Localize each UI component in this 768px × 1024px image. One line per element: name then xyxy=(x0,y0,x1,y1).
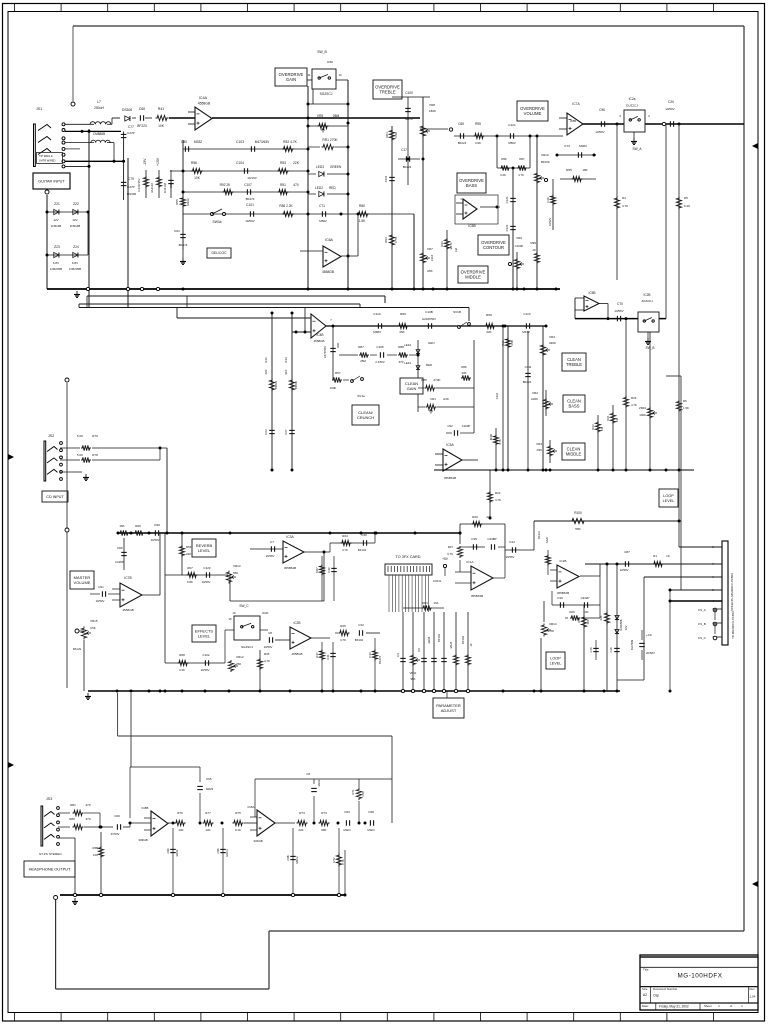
svg-text:10K: 10K xyxy=(178,828,183,832)
svg-text:16: 16 xyxy=(232,611,236,615)
svg-text:C87: C87 xyxy=(624,550,630,554)
svg-text:SW_B: SW_B xyxy=(317,50,327,54)
svg-text:M1C3: M1C3 xyxy=(225,849,229,857)
svg-text:C104: C104 xyxy=(236,161,244,165)
svg-text:10/50V: 10/50V xyxy=(96,599,105,603)
svg-text:VR04: VR04 xyxy=(639,406,647,410)
svg-text:10/50V: 10/50V xyxy=(202,580,211,584)
svg-text:RF331: RF331 xyxy=(537,530,541,539)
svg-text:1K: 1K xyxy=(532,248,536,252)
svg-text:R81: R81 xyxy=(70,803,76,807)
svg-text:C122: C122 xyxy=(505,224,509,231)
svg-text:Size: Size xyxy=(642,987,648,991)
svg-text:ADJUST: ADJUST xyxy=(441,708,457,713)
svg-text:470: 470 xyxy=(85,803,90,807)
svg-text:10/50V: 10/50V xyxy=(595,130,604,134)
svg-text:R80: R80 xyxy=(69,817,75,821)
svg-text:R52 4.7K: R52 4.7K xyxy=(283,140,298,144)
svg-text:10/50V: 10/50V xyxy=(264,645,273,649)
svg-text:C110: C110 xyxy=(373,312,380,316)
svg-text:R4: R4 xyxy=(622,196,626,200)
svg-text:M124: M124 xyxy=(449,641,453,648)
svg-text:BF224: BF224 xyxy=(274,380,278,389)
svg-text:10K: 10K xyxy=(205,828,210,832)
svg-text:10/50V: 10/50V xyxy=(665,107,674,111)
svg-text:Z24: Z24 xyxy=(73,245,79,249)
svg-text:R26: R26 xyxy=(472,515,478,519)
svg-text:OVERDRIVE: OVERDRIVE xyxy=(461,269,486,274)
svg-text:12V: 12V xyxy=(624,625,628,630)
svg-text:BF104: BF104 xyxy=(355,638,364,642)
svg-text:M502: M502 xyxy=(319,219,327,223)
svg-text:C44: C44 xyxy=(509,540,515,544)
svg-text:R59: R59 xyxy=(486,313,492,317)
svg-text:R99: R99 xyxy=(530,241,536,245)
svg-text:TO 3FX CARD: TO 3FX CARD xyxy=(395,555,420,559)
svg-text:R66: R66 xyxy=(461,365,467,369)
svg-text:CON1: CON1 xyxy=(433,579,442,583)
svg-text:LOOP: LOOP xyxy=(663,494,674,498)
svg-text:CD INPUT: CD INPUT xyxy=(46,495,64,499)
svg-text:4.7K: 4.7K xyxy=(518,173,524,177)
svg-text:C7: C7 xyxy=(270,540,274,544)
svg-text:M223: M223 xyxy=(206,787,214,791)
svg-text:R66: R66 xyxy=(135,524,141,528)
svg-text:GRN: GRN xyxy=(428,341,434,345)
svg-text:C100: C100 xyxy=(405,91,413,95)
svg-text:CONTOUR: CONTOUR xyxy=(483,245,504,250)
svg-text:C94: C94 xyxy=(166,848,170,853)
svg-text:4558GB: 4558GB xyxy=(313,339,324,343)
svg-text:SG2SCJ: SG2SCJ xyxy=(241,645,253,649)
svg-text:CLEAN: CLEAN xyxy=(567,357,581,362)
svg-text:FS_A: FS_A xyxy=(698,608,706,612)
svg-text:BF103: BF103 xyxy=(437,634,441,642)
svg-text:L7: L7 xyxy=(97,100,101,104)
svg-text:13: 13 xyxy=(338,73,342,77)
svg-text:455B61B: 455B61B xyxy=(444,476,456,480)
svg-text:BF103: BF103 xyxy=(461,636,465,644)
svg-text:TO MG30CFX-PCB03: TO MG30CFX-PCB03 xyxy=(731,611,735,639)
svg-text:55K: 55K xyxy=(575,527,581,531)
svg-text:BF224: BF224 xyxy=(523,380,532,384)
svg-text:Document Number: Document Number xyxy=(653,987,677,991)
svg-text:GAIN: GAIN xyxy=(286,77,296,82)
svg-text:+15V: +15V xyxy=(156,157,160,166)
svg-text:DEL/COC: DEL/COC xyxy=(211,251,227,255)
svg-text:08M: 08M xyxy=(333,114,340,118)
svg-text:455B61B: 455B61B xyxy=(284,566,296,570)
svg-text:ST-PC STEREO: ST-PC STEREO xyxy=(39,852,62,856)
svg-text:VR15: VR15 xyxy=(90,619,98,623)
svg-text:470: 470 xyxy=(293,183,299,187)
svg-text:C40: C40 xyxy=(327,567,331,573)
svg-text:R87: R87 xyxy=(358,345,364,349)
svg-text:C105: C105 xyxy=(376,345,384,349)
svg-text:C41: C41 xyxy=(326,654,330,660)
svg-text:VR4: VR4 xyxy=(549,335,555,339)
svg-text:M024: M024 xyxy=(344,828,351,832)
svg-text:A5K: A5K xyxy=(537,448,543,452)
svg-text:C5K: C5K xyxy=(90,626,96,630)
svg-text:MG-100HDFX: MG-100HDFX xyxy=(678,973,723,980)
svg-text:C43P/35V: C43P/35V xyxy=(137,178,141,191)
svg-text:BF224: BF224 xyxy=(403,165,412,169)
svg-text:22K: 22K xyxy=(486,515,491,519)
svg-text:R78: R78 xyxy=(92,453,98,457)
svg-text:IC8A: IC8A xyxy=(248,805,256,809)
svg-text:C32: C32 xyxy=(358,623,364,627)
svg-text:R5: R5 xyxy=(684,196,688,200)
svg-text:250uH: 250uH xyxy=(94,106,104,110)
svg-text:IC8B: IC8B xyxy=(142,806,149,810)
svg-text:RR1 270K: RR1 270K xyxy=(322,138,338,142)
svg-text:C79: C79 xyxy=(128,177,134,181)
svg-text:95K: 95K xyxy=(411,677,416,681)
svg-text:6.8K: 6.8K xyxy=(187,580,193,584)
svg-text:R23: R23 xyxy=(495,491,501,495)
svg-text:JS2: JS2 xyxy=(48,434,54,438)
svg-text:R85: R85 xyxy=(421,378,427,382)
svg-text:C16: C16 xyxy=(609,647,613,652)
svg-text:R24: R24 xyxy=(342,534,348,538)
svg-text:4.7K: 4.7K xyxy=(495,498,501,502)
svg-text:R58 2.2K: R58 2.2K xyxy=(279,204,293,208)
svg-text:5.6K: 5.6K xyxy=(77,434,83,438)
svg-text:C332P: C332P xyxy=(581,596,590,600)
svg-text:R65: R65 xyxy=(566,168,572,172)
svg-text:BASS: BASS xyxy=(466,183,477,188)
svg-text:SPK&CPL-MG30DFX-PCB01: SPK&CPL-MG30DFX-PCB01 xyxy=(730,573,734,611)
svg-text:PAGN: PAGN xyxy=(73,647,82,651)
svg-text:9.1K: 9.1K xyxy=(235,828,241,832)
svg-text:G220P/56V: G220P/56V xyxy=(422,317,436,321)
svg-text:R63: R63 xyxy=(591,424,595,430)
svg-text:R1: R1 xyxy=(653,554,657,558)
svg-text:VR11: VR11 xyxy=(409,671,416,675)
svg-text:10K: 10K xyxy=(194,176,201,180)
svg-text:1N914B: 1N914B xyxy=(51,224,62,228)
svg-text:M222: M222 xyxy=(186,198,190,206)
svg-text:1N5235B: 1N5235B xyxy=(69,267,81,271)
svg-text:IC4A: IC4A xyxy=(199,96,208,100)
svg-text:10K: 10K xyxy=(158,124,165,128)
svg-text:RED: RED xyxy=(426,363,432,367)
svg-text:R71: R71 xyxy=(351,789,355,794)
svg-text:6.8V: 6.8V xyxy=(72,261,78,265)
svg-text:M182: M182 xyxy=(175,849,179,856)
svg-text:10/56V: 10/56V xyxy=(266,554,275,558)
svg-text:15: 15 xyxy=(228,617,232,621)
svg-text:10/16V: 10/16V xyxy=(247,176,257,180)
svg-text:M222: M222 xyxy=(317,779,321,786)
svg-text:Z23: Z23 xyxy=(54,245,60,249)
svg-text:C30: C30 xyxy=(361,533,367,537)
svg-text:455B61B: 455B61B xyxy=(557,591,569,595)
svg-text:R6B: R6B xyxy=(93,846,99,850)
svg-text:BF474: BF474 xyxy=(246,197,255,201)
svg-text:GREEN: GREEN xyxy=(330,165,342,169)
svg-text:DUZ2CJ: DUZ2CJ xyxy=(626,104,638,108)
svg-text:6.2K: 6.2K xyxy=(684,204,690,208)
svg-text:Z21: Z21 xyxy=(54,202,60,206)
svg-text:VR10: VR10 xyxy=(541,153,549,157)
svg-text:FS_B: FS_B xyxy=(698,622,706,626)
svg-text:10/56V: 10/56V xyxy=(620,568,629,572)
svg-text:C47P/35V: C47P/35V xyxy=(323,346,327,358)
svg-text:C43: C43 xyxy=(368,652,372,658)
svg-text:DR1: DR1 xyxy=(336,342,340,348)
svg-text:1N5235B: 1N5235B xyxy=(50,267,62,271)
svg-text:R44: R44 xyxy=(284,357,288,363)
svg-text:BF474: BF474 xyxy=(179,243,188,247)
svg-text:LEVEL: LEVEL xyxy=(198,548,211,553)
svg-text:SV1B: SV1B xyxy=(453,310,461,314)
svg-text:320K: 320K xyxy=(549,341,556,345)
svg-text:3.2K: 3.2K xyxy=(500,173,506,177)
svg-text:OVERDRIVE: OVERDRIVE xyxy=(481,240,506,245)
svg-text:R37: R37 xyxy=(315,652,319,658)
svg-text:R43: R43 xyxy=(264,357,268,363)
svg-text:C96: C96 xyxy=(599,108,605,112)
svg-text:M022: M022 xyxy=(579,144,587,148)
svg-text:M473: M473 xyxy=(449,242,453,249)
svg-text:C71: C71 xyxy=(319,204,325,208)
svg-text:100K: 100K xyxy=(330,386,337,390)
svg-text:IC8c: IC8c xyxy=(327,60,334,64)
svg-text:A20K: A20K xyxy=(531,397,538,401)
svg-text:C67: C67 xyxy=(284,429,288,435)
svg-text:GAIN: GAIN xyxy=(407,386,417,391)
svg-text:RZ4558B: RZ4558B xyxy=(619,619,623,630)
svg-text:C107: C107 xyxy=(244,183,252,187)
svg-text:IC2B: IC2B xyxy=(643,293,650,297)
svg-text:R64: R64 xyxy=(422,601,428,605)
svg-text:22K: 22K xyxy=(486,330,491,334)
svg-text:OVERDRIVE: OVERDRIVE xyxy=(375,84,400,89)
svg-text:C101: C101 xyxy=(246,203,254,207)
svg-text:1K: 1K xyxy=(666,554,670,558)
svg-text:1.6K: 1.6K xyxy=(546,197,550,203)
svg-text:R96: R96 xyxy=(501,157,507,161)
svg-text:C17: C17 xyxy=(401,148,407,152)
svg-text:R6: R6 xyxy=(683,399,687,403)
svg-text:OVERDRIVE: OVERDRIVE xyxy=(520,106,545,111)
svg-text:M332: M332 xyxy=(194,140,202,144)
svg-text:68K: 68K xyxy=(321,828,326,832)
svg-text:SG2SCJ: SG2SCJ xyxy=(320,92,333,96)
svg-text:TREBLE: TREBLE xyxy=(379,90,395,95)
svg-text:100K: 100K xyxy=(639,413,646,417)
svg-text:4558GB: 4558GB xyxy=(198,102,211,106)
svg-text:R61: R61 xyxy=(606,415,610,421)
svg-text:+5V: +5V xyxy=(442,557,449,561)
svg-text:VR3: VR3 xyxy=(536,442,542,446)
svg-text:4.7K: 4.7K xyxy=(340,638,346,642)
svg-text:LED2: LED2 xyxy=(315,186,323,190)
svg-text:A3K: A3K xyxy=(443,397,449,401)
svg-text:C96: C96 xyxy=(216,848,220,853)
svg-text:M472: M472 xyxy=(405,117,413,121)
svg-text:4558GB: 4558GB xyxy=(291,652,302,656)
svg-text:FS_C: FS_C xyxy=(698,636,707,640)
svg-text:TREBLE: TREBLE xyxy=(566,362,582,367)
svg-text:M024: M024 xyxy=(368,828,375,832)
svg-text:C80: C80 xyxy=(181,140,187,144)
svg-text:6.8V: 6.8V xyxy=(53,261,59,265)
svg-text:25K: 25K xyxy=(399,330,404,334)
svg-text:3A4148: 3A4148 xyxy=(150,183,154,193)
svg-text:JS1: JS1 xyxy=(36,107,42,111)
svg-text:C60: C60 xyxy=(139,107,145,111)
svg-text:20/50V: 20/50V xyxy=(646,651,655,655)
svg-text:C100P: C100P xyxy=(462,424,471,428)
svg-text:CRUNCH: CRUNCH xyxy=(357,415,374,420)
svg-text:47/63V: 47/63V xyxy=(111,832,120,836)
svg-text:R88: R88 xyxy=(398,345,404,349)
svg-text:4.7K: 4.7K xyxy=(342,548,348,552)
svg-text:1K: 1K xyxy=(469,643,473,646)
svg-text:Title: Title xyxy=(643,968,649,972)
svg-text:RED: RED xyxy=(329,186,336,190)
svg-text:Date:: Date: xyxy=(642,1004,649,1008)
svg-text:10/56V: 10/56V xyxy=(506,555,515,559)
svg-text:DS306: DS306 xyxy=(122,108,132,112)
svg-text:SW_A: SW_A xyxy=(632,147,642,151)
svg-text:LEVEL: LEVEL xyxy=(198,634,211,639)
svg-text:1N914B: 1N914B xyxy=(70,224,81,228)
svg-text:1.5K: 1.5K xyxy=(359,219,366,223)
svg-text:C122: C122 xyxy=(202,653,210,657)
svg-text:455B61B: 455B61B xyxy=(471,594,483,598)
svg-text:C20: C20 xyxy=(668,100,674,104)
svg-text:R55: R55 xyxy=(175,199,179,205)
svg-text:43K: 43K xyxy=(461,371,466,375)
svg-text:4.7K: 4.7K xyxy=(622,204,628,208)
svg-text:IC7A: IC7A xyxy=(572,102,580,106)
svg-text:C92: C92 xyxy=(447,424,453,428)
svg-text:IC3A: IC3A xyxy=(286,535,294,539)
svg-text:4558GB: 4558GB xyxy=(122,608,133,612)
svg-text:33K: 33K xyxy=(599,615,603,620)
svg-text:LED3: LED3 xyxy=(316,165,324,169)
svg-text:18K: 18K xyxy=(582,168,588,172)
svg-text:C10B: C10B xyxy=(425,310,433,314)
svg-text:C85: C85 xyxy=(458,122,464,126)
svg-text:A2: A2 xyxy=(643,993,647,997)
svg-text:C103: C103 xyxy=(236,140,244,144)
svg-text:Rev: Rev xyxy=(750,987,756,991)
svg-text:R23: R23 xyxy=(631,396,637,400)
svg-text:SW_C: SW_C xyxy=(239,604,249,608)
svg-text:4.7K: 4.7K xyxy=(264,659,270,663)
svg-text:11: 11 xyxy=(308,73,311,77)
svg-text:180K: 180K xyxy=(429,109,436,113)
svg-text:B100K: B100K xyxy=(541,160,550,164)
svg-text:22K: 22K xyxy=(293,161,300,165)
svg-text:Osp: Osp xyxy=(653,994,659,998)
svg-text:R79: R79 xyxy=(92,434,98,438)
svg-text:SV1a: SV1a xyxy=(357,394,365,398)
svg-text:CLEAN: CLEAN xyxy=(567,398,581,403)
svg-text:M334: M334 xyxy=(427,636,431,643)
svg-text:C115: C115 xyxy=(384,175,388,182)
svg-text:10/50V: 10/50V xyxy=(245,219,255,223)
svg-text:4558GB: 4558GB xyxy=(322,270,335,274)
svg-text:1N4148: 1N4148 xyxy=(163,183,167,194)
svg-text:4.7K: 4.7K xyxy=(394,237,398,243)
svg-text:VR9: VR9 xyxy=(516,236,522,240)
svg-text:OVERDRIVE: OVERDRIVE xyxy=(459,178,484,183)
svg-text:C4: C4 xyxy=(396,653,400,657)
svg-text:VR7: VR7 xyxy=(427,247,433,251)
svg-text:LOOP: LOOP xyxy=(550,656,561,660)
svg-text:CLEAN: CLEAN xyxy=(567,446,581,451)
svg-text:R95: R95 xyxy=(475,122,481,126)
svg-text:333GB: 333GB xyxy=(138,838,147,842)
svg-text:C90: C90 xyxy=(154,523,160,527)
svg-text:R54: R54 xyxy=(186,545,192,549)
svg-text:-15V: -15V xyxy=(143,158,147,166)
svg-text:1.2K: 1.2K xyxy=(361,791,365,797)
svg-text:R92 2K: R92 2K xyxy=(220,183,232,187)
svg-text:C98: C98 xyxy=(368,810,374,814)
svg-text:C36: C36 xyxy=(557,596,563,600)
svg-text:A22K: A22K xyxy=(545,537,549,544)
svg-text:C15: C15 xyxy=(589,647,593,652)
svg-text:4.7K: 4.7K xyxy=(498,439,502,445)
svg-text:R74: R74 xyxy=(299,811,305,815)
svg-text:IC5B: IC5B xyxy=(588,291,595,295)
svg-text:R73: R73 xyxy=(321,811,327,815)
svg-text:of: of xyxy=(730,1004,733,1008)
svg-text:3.3K: 3.3K xyxy=(510,340,514,346)
svg-text:JS3: JS3 xyxy=(46,797,52,801)
svg-text:C9: C9 xyxy=(417,648,421,652)
svg-text:C8: C8 xyxy=(306,772,310,776)
svg-text:A5K: A5K xyxy=(427,269,433,273)
svg-text:C91: C91 xyxy=(98,585,104,589)
svg-text:2.7K: 2.7K xyxy=(341,859,345,865)
svg-text:70K: 70K xyxy=(549,629,554,633)
svg-text:C73: C73 xyxy=(564,144,570,148)
svg-text:R22: R22 xyxy=(577,617,581,623)
svg-text:C112: C112 xyxy=(495,392,499,399)
svg-text:TIP RING &: TIP RING & xyxy=(39,154,53,158)
svg-text:OVERDRIVE: OVERDRIVE xyxy=(279,72,304,77)
svg-text:333GB: 333GB xyxy=(253,839,262,843)
svg-text:12V: 12V xyxy=(53,218,58,222)
svg-text:C70: C70 xyxy=(617,302,623,306)
svg-text:R97: R97 xyxy=(519,157,525,161)
svg-text:VOLUME: VOLUME xyxy=(74,580,91,585)
svg-text:1.5K: 1.5K xyxy=(683,406,689,410)
svg-text:C63: C63 xyxy=(264,429,268,435)
svg-text:R89: R89 xyxy=(400,312,406,316)
svg-text:VR2: VR2 xyxy=(532,391,538,395)
svg-text:R80: R80 xyxy=(359,204,365,208)
svg-text:C8: C8 xyxy=(268,631,272,635)
svg-text:C120: C120 xyxy=(505,196,509,203)
svg-text:C123: C123 xyxy=(203,566,211,570)
svg-text:R84: R84 xyxy=(385,132,389,138)
svg-text:3.3K: 3.3K xyxy=(394,132,398,138)
svg-text:VR13: VR13 xyxy=(233,564,241,568)
svg-text:LEVEL: LEVEL xyxy=(663,499,675,503)
svg-text:3.9K: 3.9K xyxy=(475,141,481,145)
svg-text:R76: R76 xyxy=(177,811,183,815)
svg-text:10/32V: 10/32V xyxy=(548,218,552,227)
